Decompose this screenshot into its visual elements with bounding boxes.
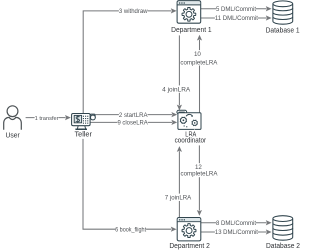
- wire 7 joinLRA (Department 2 up to LRA coordinator): [178, 151, 180, 217]
- wire 1 transfer (User to Teller): [26, 117, 66, 119]
- svg-text:Teller: Teller: [75, 132, 93, 139]
- node User (person icon): [4, 106, 22, 130]
- svg-text:completeLRA: completeLRA: [180, 59, 218, 66]
- wire 9 closeLRA (Teller to LRA coordinator): [90, 121, 172, 123]
- node Database 2 (cylinder icon): [273, 216, 293, 241]
- svg-text:1 transfer: 1 transfer: [35, 116, 59, 122]
- svg-text:User: User: [6, 133, 21, 140]
- wire 4 joinLRA (Department 1 down to LRA coordinator): [178, 35, 180, 105]
- wire 10 completeLRA (LRA coordinator up to Department 1): [199, 40, 201, 113]
- svg-text:3 withdraw: 3 withdraw: [119, 8, 148, 15]
- svg-text:4 joinLRA: 4 joinLRA: [162, 86, 191, 93]
- svg-text:9 closeLRA: 9 closeLRA: [118, 120, 149, 127]
- wire 2 startLRA (Teller to LRA coordinator): [96, 114, 172, 116]
- label 5 DML/Commit: [216, 5, 256, 12]
- label 8 DML/Commit: [216, 219, 256, 226]
- wire 3 withdraw (Teller to Department 1): [83, 11, 171, 113]
- node Department 2 (app window with gear icon): [177, 218, 201, 241]
- svg-text:2 startLRA: 2 startLRA: [119, 112, 148, 119]
- svg-text:Department 2: Department 2: [169, 243, 210, 250]
- label 4 joinLRA: [162, 85, 190, 92]
- svg-text:Department 1: Department 1: [171, 27, 212, 34]
- svg-text:coordinator: coordinator: [175, 137, 207, 144]
- wire 12 completeLRA (LRA coordinator down to Department 2): [198, 145, 200, 210]
- node Department 1 (app window with gear icon): [177, 1, 201, 24]
- wire 6 book_flight (Teller to Department 2): [83, 139, 171, 229]
- label 10 completeLRA: [180, 50, 217, 65]
- label 2 startLRA: [119, 111, 148, 118]
- label 7 joinLRA: [165, 194, 192, 201]
- svg-text:Database 2: Database 2: [266, 243, 300, 250]
- node Database 1 (cylinder icon): [273, 1, 293, 24]
- svg-text:7 joinLRA: 7 joinLRA: [165, 194, 192, 201]
- label 13 DML/Commit: [215, 228, 258, 235]
- svg-text:5 DML/Commit: 5 DML/Commit: [216, 6, 256, 13]
- label 6 book_flight: [115, 226, 146, 233]
- svg-text:Database 1: Database 1: [266, 28, 300, 35]
- wire 5 DML/Commit (Department 1 to Database 1): [201, 8, 266, 10]
- svg-text:6 book_flight: 6 book_flight: [115, 226, 146, 233]
- label 12 completeLRA: [181, 163, 218, 177]
- node LRA coordinator (process icon with two gears): [177, 110, 201, 129]
- svg-text:8 DML/Commit: 8 DML/Commit: [216, 220, 256, 227]
- wire 11 DML/Commit (Department 1 to Database 1): [201, 17, 266, 19]
- svg-text:completeLRA: completeLRA: [181, 171, 219, 178]
- node Teller (cash register icon): [72, 114, 96, 131]
- label 3 withdraw: [119, 7, 148, 14]
- label 11 DML/Commit: [215, 14, 258, 21]
- label 1 transfer: [35, 114, 59, 121]
- svg-text:11 DML/Commit: 11 DML/Commit: [215, 15, 258, 22]
- label 9 closeLRA: [118, 119, 148, 126]
- wire 8 DML/Commit (Department 2 to Database 2): [201, 222, 266, 224]
- svg-text:10: 10: [194, 51, 201, 58]
- svg-text:13 DML/Commit: 13 DML/Commit: [215, 229, 258, 236]
- wire 13 DML/Commit (Department 2 to Database 2): [201, 231, 266, 233]
